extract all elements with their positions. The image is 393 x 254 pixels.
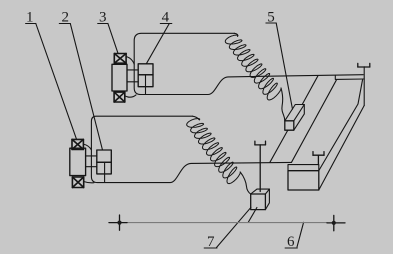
bearing upper: X-box bottom (114, 92, 125, 102)
wire arc bearing-bottom to tube bottom (125, 95, 136, 97)
wire arc bearing-top to tube edge (lower) (83, 144, 91, 150)
right cross tick (333, 215, 335, 230)
lower tube hook into coil (193, 116, 200, 120)
beam left end block: top back edge (288, 165, 319, 171)
beam bottom edge D3 (319, 106, 364, 191)
box 7 right face (265, 189, 269, 210)
T-post on beam (358, 63, 370, 67)
coil end wire to box 7 (240, 172, 251, 194)
datum line 6 left black segment (109, 222, 127, 224)
box 5 top face (285, 105, 305, 121)
label 2 (59, 10, 102, 151)
upper tube outline + wire to beam (134, 33, 363, 94)
left cross tick (119, 215, 121, 230)
label 5 (266, 10, 293, 110)
datum line 6 (gray) (127, 222, 327, 224)
lower tube outline + wire to block (91, 116, 291, 182)
beam far-left edge D1 lower part (270, 130, 288, 162)
box 2 (97, 150, 112, 162)
right cross dot (332, 221, 336, 225)
box 4 (138, 64, 153, 75)
label 3 (98, 10, 118, 54)
motor body upper (112, 64, 127, 91)
T-post on block (313, 152, 324, 165)
bearing lower: X-box top (72, 139, 83, 149)
bearing 3 upper: X-box top (114, 54, 126, 64)
coil end wire to box 5 (281, 88, 285, 121)
motor body lower (70, 148, 86, 175)
label 4 (146, 10, 172, 64)
coil spring upper (225, 35, 281, 100)
wire arc bearing-top to tube edge (126, 57, 134, 65)
box 2 divider stem down to tube (104, 162, 106, 182)
beam inner edge V2-DB (319, 80, 363, 171)
box 5 right face (294, 105, 305, 131)
connector wires motor to box 4 (127, 69, 138, 71)
label 7 (204, 207, 251, 250)
upper tube hook into coil (234, 33, 237, 36)
label 1 (26, 10, 77, 140)
wire arc bearing-bottom to tube bottom (lower) (84, 182, 94, 183)
box 5 (slider on beam) front face (285, 121, 294, 130)
label 6 (285, 222, 304, 250)
T-post above box 7 (255, 141, 266, 191)
box 4 lower part (138, 75, 153, 87)
box 7 front face (251, 194, 266, 210)
bearing lower: X-box bottom (72, 177, 83, 188)
beam right vertical edge V1 (363, 67, 365, 106)
box 2 lower part (97, 162, 112, 174)
left cross dot (117, 221, 121, 225)
box 4 divider stem down to tube (145, 75, 147, 95)
datum line 6 right black segment (327, 222, 345, 224)
beam top near edge T2 with step (335, 76, 364, 80)
beam near-top long edge D2 (292, 80, 337, 162)
beam far-left edge D1 upper part (302, 76, 318, 105)
connector wires motor to box 2 (86, 155, 97, 157)
beam left end block: front face (288, 171, 319, 190)
short link box 7 to rail 6 (248, 208, 257, 223)
coil spring lower (187, 119, 241, 184)
box 7 top face (251, 189, 270, 194)
